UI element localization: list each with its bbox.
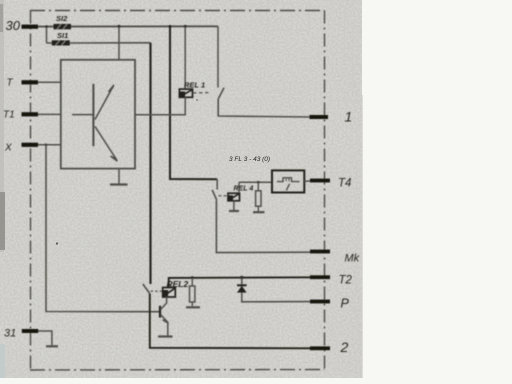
REL2 mechanical link (dashed) xyxy=(151,290,163,292)
contact REL4 blade xyxy=(212,190,217,200)
wire 30 rail to REL1 coil xyxy=(184,26,186,89)
wire 30 feed xyxy=(38,25,218,27)
svg-text:T2: T2 xyxy=(339,275,353,287)
terminal X xyxy=(4,143,38,154)
diode D1 xyxy=(237,276,247,302)
svg-text:T: T xyxy=(7,78,14,89)
wire REL2 coil top to T2 rail xyxy=(169,277,311,287)
wire diode to terminal P xyxy=(241,301,311,303)
wire T to block xyxy=(38,81,61,83)
terminal 1 xyxy=(310,109,353,125)
wire REL2 contact output to terminal 2 xyxy=(150,294,311,349)
terminal T4 xyxy=(310,178,351,190)
terminal 2 xyxy=(310,339,349,355)
relay coil REL1 xyxy=(179,81,205,98)
terminal P xyxy=(310,297,350,311)
resistor R1 xyxy=(253,181,265,212)
relay coil REL4 xyxy=(228,185,253,201)
wire REL4 contact feed corner xyxy=(216,179,218,189)
terminal MK xyxy=(310,250,360,265)
transistor Q1 collector xyxy=(95,85,114,120)
svg-text:1: 1 xyxy=(345,109,353,125)
terminal T xyxy=(7,78,39,89)
svg-text:REL2: REL2 xyxy=(167,279,189,289)
svg-text:SI1: SI1 xyxy=(57,31,68,40)
wire 30 rail to block top xyxy=(118,26,120,60)
block U1 output-stage box xyxy=(61,60,135,169)
wire 31 to ground xyxy=(38,331,52,345)
resistor R2 xyxy=(186,276,200,307)
node junction on 30 rail at x185 xyxy=(184,25,187,28)
transistor Q2 collector xyxy=(161,297,167,310)
ground REL4 coil xyxy=(229,201,239,211)
wire U2 to terminal T4 xyxy=(304,180,311,182)
faint ghost artifacts (scan bleed-through) xyxy=(234,3,360,101)
transistor Q1 base bar xyxy=(92,84,94,146)
svg-text:30: 30 xyxy=(6,18,21,33)
ground Q2 emitter xyxy=(158,322,173,336)
wire SI1 tap xyxy=(46,27,48,43)
terminal 31 xyxy=(4,328,38,340)
REL4 mechanical link (dashed) xyxy=(219,195,229,197)
svg-text:3 FL 3 - 43 (0): 3 FL 3 - 43 (0) xyxy=(229,156,270,163)
wire 30 rail corner down to REL1 contact xyxy=(217,26,219,87)
svg-text:X: X xyxy=(4,143,12,154)
wire X branch down to Q2 base xyxy=(46,145,160,312)
fuse SI1 xyxy=(52,31,70,46)
wire 30 rail down to REL4 contact feed xyxy=(170,26,217,179)
wire REL1 contact output to terminal 1 xyxy=(218,99,310,117)
left page-edge shading xyxy=(0,0,4,252)
wire REL4 coil to node A xyxy=(238,182,240,193)
ground below block U1 xyxy=(110,169,128,185)
node junction on 30 rail at x170 xyxy=(169,25,172,28)
wire REL4 contact output down to MK xyxy=(216,200,311,252)
fuse SI2 xyxy=(54,14,72,29)
wire T1 to block xyxy=(38,113,61,115)
wire REL1 coil return xyxy=(135,97,185,115)
svg-text:REL 4: REL 4 xyxy=(234,185,254,192)
thermal switch U2 xyxy=(272,170,304,192)
svg-text:T4: T4 xyxy=(338,178,351,190)
svg-text:REL 1: REL 1 xyxy=(184,81,205,90)
wire SI1 output to node xyxy=(70,42,151,44)
ground 31 xyxy=(46,345,58,347)
svg-text:T1: T1 xyxy=(3,110,15,121)
terminal 30 xyxy=(6,18,39,33)
svg-text:Mk: Mk xyxy=(345,253,360,265)
wire vertical from SI1 to REL2 contact xyxy=(149,43,151,284)
transistor Q2 base bar xyxy=(159,306,161,318)
node junction 30 rail at SI1 tap xyxy=(45,25,48,28)
transistor Q1 emitter xyxy=(95,127,117,162)
node junction on 30 rail at x119 xyxy=(118,25,121,28)
svg-text:P: P xyxy=(341,297,350,311)
wire node A xyxy=(239,181,272,183)
wire X to block xyxy=(38,144,61,146)
transistor Q1 base lead xyxy=(72,114,93,116)
dash-dot border frame xyxy=(30,11,325,371)
terminal T2 xyxy=(310,275,353,287)
svg-text:31: 31 xyxy=(4,328,16,340)
contact REL1 blade xyxy=(218,88,224,99)
terminal T1 xyxy=(3,110,38,121)
node junction X branch xyxy=(45,144,48,147)
transistor Q2 emitter xyxy=(161,314,169,323)
svg-text:SI2: SI2 xyxy=(56,14,68,23)
relay coil REL2 xyxy=(163,279,189,297)
REL1 mechanical link (dashed) xyxy=(193,92,211,94)
svg-text:2: 2 xyxy=(340,339,349,355)
contact REL2 blade xyxy=(143,284,150,294)
